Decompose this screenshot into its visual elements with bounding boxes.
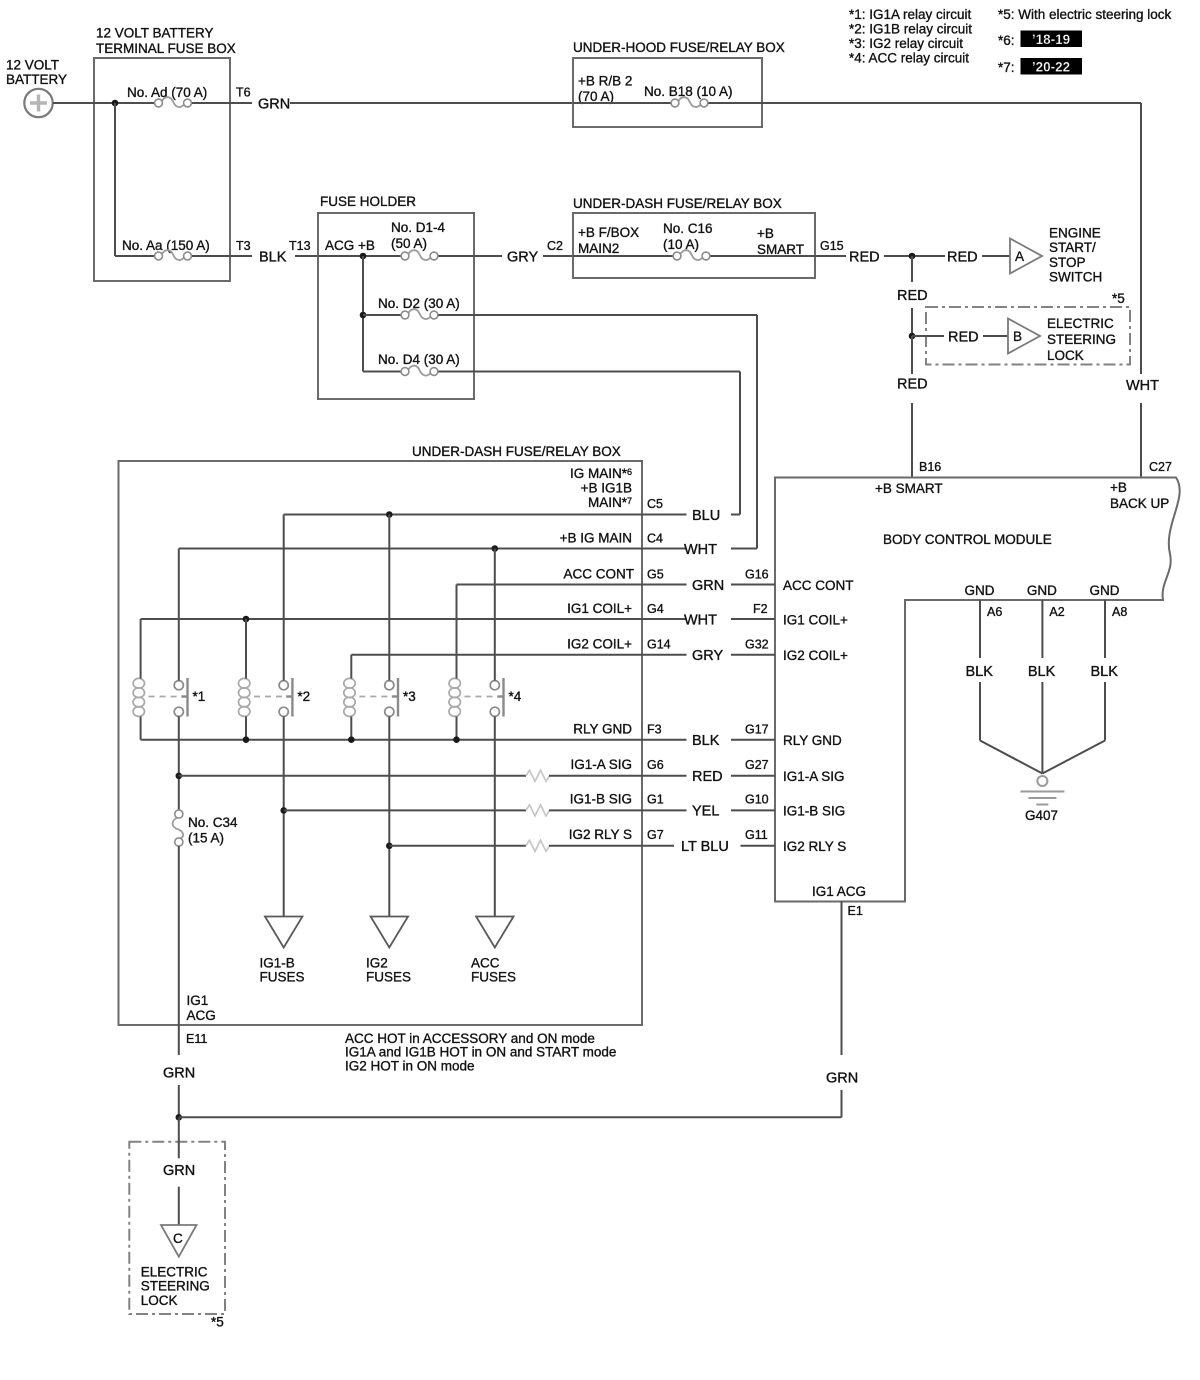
svg-text:E1: E1: [848, 904, 863, 918]
svg-text:GRY: GRY: [507, 250, 538, 266]
wire G14 row (IG2 COIL+): [351, 654, 642, 656]
wire BLK A6 down: [979, 682, 981, 741]
svg-text:ELECTRIC: ELECTRIC: [1047, 316, 1114, 331]
svg-text:RED: RED: [692, 769, 723, 785]
svg-text:BLU: BLU: [692, 508, 720, 524]
resistor IG1-A SIG: [526, 770, 550, 781]
svg-text:IG1-A SIG: IG1-A SIG: [783, 769, 845, 784]
wire C4 stub out of box: [642, 548, 687, 550]
wire BLK to fuse holder: [295, 255, 318, 257]
svg-text:*6:: *6:: [998, 33, 1015, 48]
ENGINE START/STOP SWITCH label: [1049, 226, 1102, 285]
12 VOLT BATTERY TERMINAL FUSE BOX label: [96, 26, 236, 57]
svg-text:LOCK: LOCK: [1047, 348, 1084, 363]
svg-text:ACC CONT: ACC CONT: [564, 567, 635, 582]
svg-text:No. D2 (30 A): No. D2 (30 A): [378, 296, 460, 311]
wire fuse C16 to G15: [711, 255, 816, 257]
wire into fuse B18: [573, 102, 671, 104]
svg-text:*5: With electric steering loc: *5: With electric steering lock: [998, 7, 1172, 22]
wire to ESL RED segment: [912, 335, 944, 337]
wire fuse Aa to T3 segment: [192, 255, 252, 257]
svg-text:G14: G14: [647, 638, 671, 652]
legend *6 years badge: [998, 31, 1082, 49]
wire RED to BCM G27: [731, 775, 775, 777]
junction RLY GND relay *2: [243, 736, 250, 743]
wire G5 stub out of box: [642, 584, 687, 586]
wire C4 down to relay *1 contact: [178, 549, 180, 681]
wire relay *1 coil to RLY GND bus: [140, 717, 142, 740]
wire G1 stub out of box: [642, 809, 687, 811]
fuse No. C34 value label: [188, 815, 238, 846]
svg-text:BLK: BLK: [692, 733, 720, 749]
ELECTRIC STEERING LOCK (lower) label: [141, 1265, 210, 1308]
wire WHT stub to D2 feed: [731, 548, 757, 550]
svg-text:BLK: BLK: [1028, 664, 1056, 680]
junction ACG +B: [360, 253, 367, 260]
wire GRN down to junction: [178, 1085, 180, 1117]
legend *1..*4 relay circuits: [849, 7, 972, 66]
wire GRY to under-dash box: [543, 255, 573, 257]
svg-text:RED: RED: [897, 377, 928, 393]
svg-text:IG1: IG1: [187, 993, 209, 1008]
svg-text:IG1-B SIG: IG1-B SIG: [783, 804, 845, 819]
svg-text:ACG: ACG: [187, 1008, 216, 1023]
svg-text:GRN: GRN: [163, 1066, 195, 1082]
node label IG MAIN*6 +B IG1B MAIN*7: [570, 466, 632, 510]
wire fuse B18 to right corner: [709, 102, 1142, 104]
svg-text:GRN: GRN: [692, 578, 724, 594]
svg-text:12 VOLT: 12 VOLT: [6, 58, 59, 73]
connector arrow IG2 FUSES: [371, 917, 408, 948]
svg-text:GND: GND: [1027, 583, 1057, 598]
wire +B SMART down segment a: [911, 256, 913, 282]
svg-text:START/: START/: [1049, 240, 1096, 255]
svg-text:IG1 ACG: IG1 ACG: [812, 884, 866, 899]
svg-text:UNDER-DASH FUSE/RELAY BOX: UNDER-DASH FUSE/RELAY BOX: [573, 196, 782, 211]
svg-text:*5: *5: [211, 1315, 224, 1330]
wire G5 row (ACC CONT): [457, 584, 643, 586]
svg-text:FUSES: FUSES: [366, 970, 411, 985]
wire ACG bus down inside fuse holder: [362, 256, 364, 372]
junction C5 to relay *3 contact: [386, 511, 393, 518]
under-dash fuse/relay box (upper) outline: [573, 213, 815, 278]
svg-text:IG1 COIL+: IG1 COIL+: [783, 613, 848, 628]
wire C5 stub out of box: [642, 514, 687, 516]
+B SMART label: [757, 226, 804, 257]
svg-text:STOP: STOP: [1049, 255, 1086, 270]
svg-text:+B F/BOX: +B F/BOX: [578, 225, 639, 240]
svg-text:No. C34: No. C34: [188, 815, 238, 830]
wire E1 down segment b: [841, 1090, 843, 1117]
junction IG2 RLY S tap: [386, 843, 393, 850]
svg-text:B: B: [1013, 329, 1022, 344]
svg-text:’20-22: ’20-22: [1032, 60, 1070, 75]
ACC FUSES label: [471, 956, 516, 985]
svg-text:*1: *1: [193, 689, 206, 704]
svg-text:FUSES: FUSES: [471, 970, 516, 985]
wire IG1-B SIG to box edge: [549, 809, 642, 811]
fuse No. C34 (15 A): [173, 810, 184, 846]
svg-text:RLY GND: RLY GND: [783, 733, 842, 748]
svg-text:SMART: SMART: [757, 242, 804, 257]
svg-text:12 VOLT BATTERY: 12 VOLT BATTERY: [96, 26, 214, 41]
svg-text:FUSE HOLDER: FUSE HOLDER: [320, 194, 416, 209]
svg-text:G11: G11: [745, 828, 768, 842]
svg-text:IG2 HOT in ON mode: IG2 HOT in ON mode: [345, 1058, 475, 1073]
svg-text:(15 A): (15 A): [188, 831, 224, 846]
wire to fuse D2: [363, 314, 401, 316]
wire IG2 RLY S row: [389, 845, 526, 847]
fuse No. B18 (10 A): [671, 97, 708, 107]
wire relay *1 contact down to fuse C34: [178, 716, 180, 810]
wire fuse D1-4 to GRY segment: [439, 255, 503, 257]
svg-text:’18-19: ’18-19: [1032, 32, 1070, 47]
wire ESL tap down segment a: [911, 336, 913, 374]
svg-text:G6: G6: [647, 758, 664, 772]
svg-text:(70 A): (70 A): [578, 89, 614, 104]
+B F/BOX MAIN2 label: [578, 225, 639, 256]
relay *1 (IG1A relay circuit): [133, 678, 205, 717]
svg-text:*5: *5: [1112, 291, 1125, 306]
svg-text:A2: A2: [1049, 605, 1064, 619]
wire relay *3 coil to RLY GND bus: [350, 717, 352, 740]
junction +B SMART split: [909, 253, 916, 260]
junction IG1-B SIG tap: [280, 807, 287, 814]
svg-text:IG1 COIL+: IG1 COIL+: [567, 601, 632, 616]
wire to fuse No. Aa: [115, 255, 154, 257]
svg-text:*3: IG2 relay circuit: *3: IG2 relay circuit: [849, 36, 963, 51]
svg-text:UNDER-HOOD FUSE/RELAY BOX: UNDER-HOOD FUSE/RELAY BOX: [573, 40, 785, 55]
svg-text:No. C16: No. C16: [663, 221, 713, 236]
svg-text:G16: G16: [745, 568, 769, 582]
svg-text:STEERING: STEERING: [1047, 332, 1116, 347]
wire BLK to BCM G17: [731, 739, 775, 741]
junction IG1 COIL+ to relay *2 coil: [243, 616, 250, 623]
wire F3 stub out of box: [642, 739, 687, 741]
svg-text:C5: C5: [647, 497, 663, 511]
svg-text:LOCK: LOCK: [141, 1293, 178, 1308]
node label IG1 ACG: [187, 993, 216, 1023]
IG2 FUSES label: [366, 956, 411, 985]
svg-text:TERMINAL FUSE BOX: TERMINAL FUSE BOX: [96, 41, 236, 56]
ELECTRIC STEERING LOCK (upper) label: [1047, 316, 1116, 363]
wire GND A8 upper segment: [1104, 600, 1106, 658]
wire D2 down to C4 WHT stub: [756, 315, 758, 549]
svg-text:*7:: *7:: [998, 60, 1015, 75]
svg-text:*4: ACC relay circuit: *4: ACC relay circuit: [849, 51, 969, 66]
wire G6 stub out of box: [642, 775, 687, 777]
junction ESL tap: [909, 333, 916, 340]
wire fuse Ad to T6 GRN segment: [192, 102, 252, 104]
svg-text:GRN: GRN: [163, 1163, 195, 1179]
svg-text:GND: GND: [1090, 583, 1120, 598]
svg-text:*1: IG1A relay circuit: *1: IG1A relay circuit: [849, 7, 972, 22]
wire relay *4 contact down to ACC fuses: [494, 716, 496, 916]
wire GND A6 upper segment: [979, 600, 981, 658]
svg-text:G5: G5: [647, 568, 664, 582]
wire battery to fuse No. Ad: [53, 102, 154, 104]
relay *3 (IG2 relay circuit): [344, 678, 416, 717]
wire IG2 RLY S to box edge: [549, 845, 642, 847]
svg-text:F2: F2: [753, 602, 768, 616]
svg-text:RED: RED: [947, 250, 978, 266]
fuse No. Aa (150 A): [155, 250, 192, 260]
fuse No. D1-4 (50 A): [401, 250, 438, 260]
junction fuse D2 tap: [360, 312, 367, 319]
ground G407 symbol: [1020, 776, 1064, 805]
wire G15 RED segment a: [815, 255, 846, 257]
wire A8 diagonal to ground node: [1042, 741, 1105, 774]
svg-text:MAIN*7: MAIN*7: [588, 495, 632, 510]
svg-text:T6: T6: [236, 86, 251, 100]
wire battery bus down to fuse No. Aa: [114, 103, 116, 256]
wire E1 down segment a: [841, 902, 843, 1056]
svg-text:+B SMART: +B SMART: [875, 481, 943, 496]
svg-text:F3: F3: [647, 723, 662, 737]
svg-text:G4: G4: [647, 602, 664, 616]
wire C4 down to relay *4 contact: [494, 549, 496, 681]
electric steering lock (upper) dash-dot box: [926, 307, 1130, 365]
svg-text:RED: RED: [897, 288, 928, 304]
svg-text:*2: *2: [297, 689, 310, 704]
wire relay *2 contact down to IG1-B fuses: [283, 716, 285, 916]
wire IG1-B SIG row: [284, 809, 526, 811]
svg-text:C: C: [173, 1231, 183, 1246]
wire fuse D2 right to corner: [439, 314, 758, 316]
svg-text:(50 A): (50 A): [391, 236, 427, 251]
svg-text:C4: C4: [647, 532, 663, 546]
wire IG2 COIL+ down to relay *3 coil: [350, 655, 352, 679]
svg-text:GRN: GRN: [258, 97, 290, 113]
svg-text:GRY: GRY: [692, 648, 723, 664]
fuse No. C16 value label: [663, 221, 713, 252]
svg-text:RED: RED: [948, 330, 979, 346]
connector B (electric steering lock): [1008, 319, 1040, 354]
note ACC HOT modes: [345, 1031, 616, 1073]
svg-text:FUSES: FUSES: [260, 970, 305, 985]
BCM pin name +B BACK UP: [1110, 480, 1169, 511]
wire relay *2 coil to RLY GND bus: [245, 717, 247, 740]
svg-text:+B IG1B: +B IG1B: [581, 481, 632, 496]
svg-text:G15: G15: [820, 239, 844, 253]
connector C (electric steering lock): [161, 1225, 197, 1257]
IG1-B FUSES label: [260, 956, 305, 985]
fuse holder box outline: [318, 213, 474, 399]
svg-text:(10 A): (10 A): [663, 237, 699, 252]
svg-text:T13: T13: [289, 239, 311, 253]
svg-text:+B: +B: [757, 226, 774, 241]
svg-text:IG2 RLY S: IG2 RLY S: [569, 827, 632, 842]
svg-text:LT BLU: LT BLU: [681, 839, 729, 855]
wire GRN to under-hood box: [290, 102, 573, 104]
svg-text:IG2 COIL+: IG2 COIL+: [567, 637, 632, 652]
svg-text:ACC CONT: ACC CONT: [783, 578, 854, 593]
relay *2 (IG1B relay circuit): [239, 678, 311, 717]
svg-text:WHT: WHT: [684, 542, 717, 558]
svg-text:G10: G10: [745, 793, 769, 807]
wire GRY to BCM G32: [731, 654, 775, 656]
svg-text:B16: B16: [919, 460, 941, 474]
wire C5 row (IG MAIN): [284, 514, 642, 516]
svg-text:WHT: WHT: [684, 613, 717, 629]
wire IG1-A SIG row: [179, 775, 526, 777]
svg-text:UNDER-DASH FUSE/RELAY BOX: UNDER-DASH FUSE/RELAY BOX: [412, 444, 621, 459]
svg-text:+B R/B 2: +B R/B 2: [578, 74, 632, 89]
fuse No. D1-4 value label: [391, 220, 446, 251]
wire IG1 COIL+ down to relay *2 coil: [245, 619, 247, 679]
svg-text:STEERING: STEERING: [141, 1279, 210, 1294]
svg-text:A: A: [1015, 249, 1024, 264]
relay *4 (ACC relay circuit): [449, 678, 522, 717]
svg-text:*2: IG1B relay circuit: *2: IG1B relay circuit: [849, 22, 972, 37]
wire relay *3 contact down to IG2 fuses: [388, 716, 390, 916]
wire fuse D4 right to corner: [439, 371, 741, 373]
svg-text:A6: A6: [987, 605, 1002, 619]
wire BLK A2 down to ground node: [1041, 682, 1043, 774]
connector arrow IG1-B FUSES: [265, 917, 302, 948]
svg-text:No. D1-4: No. D1-4: [391, 220, 446, 235]
svg-text:No. B18 (10 A): No. B18 (10 A): [644, 84, 733, 99]
svg-text:T3: T3: [236, 239, 251, 253]
wire GRN to connector C: [178, 1187, 180, 1225]
wire RED segment b: [884, 255, 945, 257]
wire C4 row (+B IG MAIN): [179, 548, 642, 550]
svg-text:No. D4 (30 A): No. D4 (30 A): [378, 352, 460, 367]
svg-text:IG2 RLY S: IG2 RLY S: [783, 839, 846, 854]
wire RED to connector B: [983, 335, 1008, 337]
wire IG1-A SIG to box edge: [549, 775, 642, 777]
wire IG1 ACG down inside box: [178, 846, 180, 1055]
connector A (engine start/stop switch): [1010, 239, 1042, 274]
wire WHT down to C27: [1140, 403, 1142, 478]
fuse No. C16 (10 A): [673, 250, 710, 260]
fuse No. Ad (70 A): [155, 97, 192, 107]
wire IG1 COIL+ down to relay *1 coil: [140, 619, 142, 679]
svg-text:RLY GND: RLY GND: [573, 722, 632, 737]
wire down to ESL tap: [911, 308, 913, 336]
junction GRN split: [176, 1114, 183, 1121]
svg-text:G32: G32: [745, 638, 769, 652]
svg-text:+B IG MAIN: +B IG MAIN: [560, 531, 632, 546]
junction C4 to relay *4 contact: [492, 545, 499, 552]
wire C5 down to relay *3 contact: [388, 515, 390, 681]
wire LT BLU to BCM G11: [741, 845, 776, 847]
svg-text:C2: C2: [547, 239, 563, 253]
electric steering lock (lower) dash-dot box: [129, 1142, 225, 1314]
wire GRN to BCM G16: [731, 584, 775, 586]
svg-text:GND: GND: [965, 583, 995, 598]
wire relay *4 coil to RLY GND bus: [456, 717, 458, 740]
svg-text:BACK UP: BACK UP: [1110, 496, 1169, 511]
wire WHT to BCM F2: [731, 618, 775, 620]
wire BLK A8 down: [1104, 682, 1106, 741]
svg-text:C27: C27: [1149, 460, 1172, 474]
svg-text:BLK: BLK: [966, 664, 994, 680]
svg-text:IG1-B: IG1-B: [260, 956, 295, 971]
svg-text:IG2 COIL+: IG2 COIL+: [783, 648, 848, 663]
svg-text:A8: A8: [1112, 605, 1127, 619]
wire G4 stub out of box: [642, 618, 687, 620]
resistor IG1-B SIG: [526, 805, 550, 816]
wire BLU stub to D4 feed: [731, 514, 740, 516]
wire T13 to fuse D1-4: [318, 255, 401, 257]
svg-text:G17: G17: [745, 723, 769, 737]
wire A6 diagonal to ground node: [980, 741, 1042, 774]
+B R/B 2 (70 A) label: [578, 74, 632, 105]
wire RED down to B16: [911, 403, 913, 478]
under-hood fuse/relay box outline: [573, 58, 762, 127]
wire D4 down to C5 BLU stub: [739, 372, 741, 515]
wire C5 down to relay *2 contact: [283, 515, 285, 681]
battery 12 VOLT BATTERY: [6, 58, 67, 118]
svg-text:YEL: YEL: [692, 804, 719, 820]
svg-text:E11: E11: [186, 1032, 207, 1046]
wire right vertical down to WHT: [1140, 103, 1142, 374]
wire GND A2 upper segment: [1041, 600, 1043, 658]
svg-text:WHT: WHT: [1126, 378, 1159, 394]
svg-text:RED: RED: [849, 250, 880, 266]
junction IG1-A SIG tap: [176, 773, 183, 780]
svg-text:G1: G1: [647, 793, 664, 807]
svg-text:BATTERY: BATTERY: [6, 72, 67, 87]
svg-text:IG MAIN*6: IG MAIN*6: [570, 466, 632, 481]
svg-text:G27: G27: [745, 758, 769, 772]
svg-text:ACC: ACC: [471, 956, 500, 971]
svg-text:BLK: BLK: [1091, 664, 1119, 680]
svg-text:+B: +B: [1110, 480, 1127, 495]
svg-text:MAIN2: MAIN2: [578, 241, 619, 256]
terminal fuse box outline: [94, 58, 230, 281]
wire G14 stub out of box: [642, 654, 687, 656]
svg-text:ELECTRIC: ELECTRIC: [141, 1265, 208, 1280]
junction RLY GND relay *3: [348, 736, 355, 743]
resistor IG2 RLY S: [526, 840, 550, 851]
svg-text:ENGINE: ENGINE: [1049, 226, 1101, 241]
svg-text:IG1-A SIG: IG1-A SIG: [570, 757, 632, 772]
svg-text:SWITCH: SWITCH: [1049, 270, 1102, 285]
wire RED to connector A: [982, 255, 1010, 257]
svg-text:GRN: GRN: [826, 1071, 858, 1087]
svg-text:*3: *3: [403, 689, 416, 704]
body control module outline: [775, 478, 1180, 902]
svg-text:ACG +B: ACG +B: [325, 238, 375, 253]
svg-text:BODY CONTROL MODULE: BODY CONTROL MODULE: [883, 532, 1052, 547]
wire to fuse D4: [363, 371, 401, 373]
wire GRN bottom run to E1: [179, 1116, 842, 1118]
wire RLY GND bus: [141, 739, 642, 741]
svg-text:G407: G407: [1025, 808, 1058, 823]
wire GRN into lower ESL: [178, 1117, 180, 1158]
wire ACC CONT down to relay *4 coil: [456, 585, 458, 679]
wire YEL to BCM G10: [731, 809, 775, 811]
svg-text:BLK: BLK: [259, 250, 287, 266]
wire C2 into fuse C16: [573, 255, 673, 257]
under-dash fuse/relay box (main) outline: [119, 461, 643, 1025]
connector arrow ACC FUSES: [476, 917, 513, 948]
fuse No. D4 (30 A): [401, 366, 438, 376]
svg-text:IG1-B SIG: IG1-B SIG: [570, 792, 632, 807]
fuse No. D2 (30 A): [401, 309, 438, 319]
junction RLY GND relay *4: [453, 736, 460, 743]
svg-text:IG2: IG2: [366, 956, 388, 971]
svg-text:G7: G7: [647, 828, 664, 842]
wire G4 row (IG1 COIL+): [141, 618, 642, 620]
wire G7 stub out of box: [642, 845, 674, 847]
legend *7 years badge: [998, 58, 1082, 75]
junction battery feed: [112, 100, 119, 107]
svg-text:*4: *4: [509, 689, 522, 704]
